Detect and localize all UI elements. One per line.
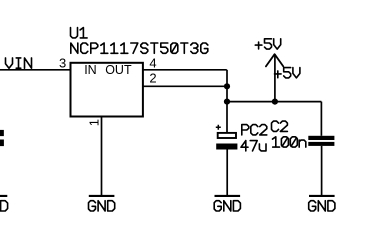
- capacitor PC2 plus sign: [216, 125, 221, 130]
- voltage regulator U1 body: [71, 63, 143, 117]
- svg-text:OUT: OUT: [105, 63, 132, 77]
- net label VIN: [6, 58, 32, 68]
- refdes C2: [272, 121, 288, 131]
- junction pin2/rail: [224, 83, 230, 89]
- capacitor C2 top plate: [308, 136, 334, 140]
- +5V power symbol stem: [274, 54, 276, 101]
- ground label GND: [309, 201, 335, 211]
- value NCP1117ST50T3G: [71, 43, 208, 53]
- capacitor C2 bottom plate: [308, 142, 334, 146]
- svg-text:4: 4: [149, 56, 156, 71]
- wire +5V net down to C2: [320, 102, 322, 136]
- ground symbol at x=101.6: [89, 195, 115, 197]
- wire pin 4 to +5V rail: [143, 69, 227, 71]
- refdes PC2: [242, 125, 267, 135]
- partial capacitor at left edge: bottom plate: [0, 140, 4, 147]
- ground symbol at x=-5.5: [0, 195, 7, 197]
- partial capacitor at left edge: top plate: [0, 130, 4, 136]
- refdes U1: [71, 28, 88, 38]
- ground label GND: [0, 201, 8, 211]
- wire pin 1 to GND: [101, 117, 103, 196]
- ground symbol at x=227.3: [215, 195, 241, 197]
- +5V power symbol arrow: [266, 54, 283, 66]
- wire C2 to GND: [321, 146, 323, 196]
- junction rail/horizontal: [224, 99, 230, 105]
- wire pin 2 to +5V rail: [143, 85, 227, 87]
- svg-text:2: 2: [149, 70, 156, 85]
- net label +5V on stem: [275, 68, 300, 78]
- ground label GND: [89, 201, 115, 211]
- ground label GND: [214, 201, 240, 211]
- svg-text:1: 1: [87, 119, 102, 126]
- wire VIN net (pin 3 input): [0, 69, 71, 71]
- value 100n: [273, 137, 306, 147]
- +5V power symbol label: [255, 39, 280, 49]
- value 47u: [241, 141, 266, 151]
- svg-text:3: 3: [59, 55, 66, 70]
- capacitor PC2 bottom plate (filled): [216, 144, 237, 150]
- wire PC2 to GND: [226, 150, 228, 196]
- wire vertical rail at x=227: [226, 70, 228, 133]
- svg-text:IN: IN: [84, 63, 97, 77]
- ground symbol at x=321.8: [309, 195, 335, 197]
- junction +5V stem: [272, 99, 278, 105]
- wire horizontal +5V net: [227, 101, 321, 103]
- capacitor PC2 top plate (outlined): [218, 133, 236, 138]
